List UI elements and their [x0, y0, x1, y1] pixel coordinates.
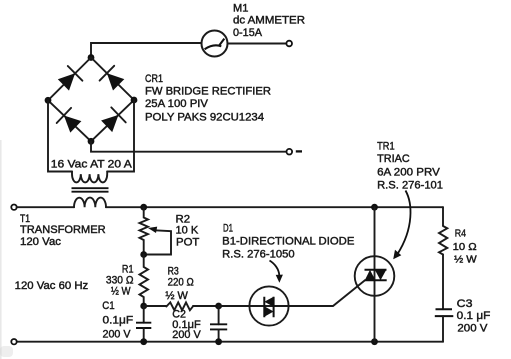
svg-text:R1: R1: [122, 263, 134, 275]
capacitor C2: [218, 306, 220, 324]
wire primary to right branch: [106, 206, 443, 208]
svg-text:200 V: 200 V: [172, 329, 201, 341]
wire triac main terminals: [374, 207, 376, 342]
svg-text:200 V: 200 V: [103, 329, 132, 341]
wire R3 to D1: [193, 305, 289, 307]
resistor R1: [140, 255, 149, 307]
node triac top: [371, 204, 378, 211]
wire bridge bottom vertex to minus terminal: [91, 141, 287, 151]
transformer T1 core: [72, 188, 109, 192]
node C2 bus: [215, 338, 222, 345]
svg-text:120 Vac 60 Hz: 120 Vac 60 Hz: [15, 280, 89, 292]
svg-text:6A 200 PRV: 6A 200 PRV: [377, 166, 440, 178]
svg-text:TRIAC: TRIAC: [377, 153, 410, 165]
node triac bus: [371, 338, 378, 345]
svg-text:R.S. 276-101: R.S. 276-101: [377, 180, 443, 192]
svg-text:0-15A: 0-15A: [233, 27, 263, 39]
node bridge bottom vertex: [88, 138, 95, 145]
svg-text:C1: C1: [102, 300, 114, 312]
node bridge right vertex: [131, 97, 138, 104]
callout arrow to D1: [270, 261, 280, 276]
triac TR1: [355, 256, 395, 296]
ammeter M1: [202, 31, 228, 57]
capacitor C3: [435, 309, 454, 316]
node bridge left vertex: [45, 97, 52, 104]
node C2 top: [215, 303, 222, 310]
resistor R2 potentiometer: [140, 207, 149, 254]
svg-text:½ W: ½ W: [454, 254, 477, 266]
svg-text:M1: M1: [233, 2, 248, 14]
svg-text:R4: R4: [455, 228, 466, 240]
wire right branch top: [442, 207, 444, 225]
minus sign: [296, 150, 302, 152]
terminal plus output: [286, 41, 292, 47]
svg-text:POT: POT: [176, 237, 200, 249]
capacitor C1: [143, 306, 145, 323]
wire bridge left vertex to secondary: [48, 100, 72, 171]
wire D1 to triac gate: [289, 280, 365, 306]
wire AC input to primary: [17, 206, 74, 208]
svg-text:½ W: ½ W: [165, 290, 188, 302]
svg-text:FW BRIDGE RECTIFIER: FW BRIDGE RECTIFIER: [145, 85, 271, 97]
diode CR1 upper-left: [58, 73, 75, 90]
terminal minus output: [287, 149, 293, 155]
svg-text:dc AMMETER: dc AMMETER: [233, 15, 305, 27]
wire bridge CR1 diamond: [48, 58, 134, 142]
scan edge artifact: [0, 140, 2, 359]
wire ammeter to plus terminal: [228, 43, 287, 45]
node R2 bottom: [140, 251, 147, 258]
svg-text:10 K: 10 K: [176, 225, 199, 237]
diode CR1 lower-left: [64, 116, 82, 133]
diode CR1 upper-right: [107, 73, 124, 90]
svg-text:10 Ω: 10 Ω: [453, 241, 477, 253]
svg-text:16 Vac AT 20 A: 16 Vac AT 20 A: [51, 159, 132, 171]
diode CR1 lower-right: [101, 115, 118, 132]
svg-text:0.1μF: 0.1μF: [103, 314, 134, 326]
pot R2 wiper arrow and loop: [144, 230, 171, 254]
svg-text:TRANSFORMER: TRANSFORMER: [20, 224, 106, 236]
wire R1 bottom to R3: [144, 305, 167, 307]
wire R4 to C3: [442, 255, 444, 310]
node C1 bus: [140, 338, 147, 345]
terminal AC line input: [11, 205, 16, 210]
svg-text:200 V: 200 V: [457, 323, 488, 335]
svg-text:R.S. 276-1050: R.S. 276-1050: [222, 248, 295, 260]
callout arrow to TR1: [398, 191, 411, 255]
svg-text:25A 100 PIV: 25A 100 PIV: [145, 98, 209, 110]
transformer T1 primary winding: [74, 198, 106, 208]
wire bridge top vertex to ammeter: [91, 43, 202, 58]
svg-text:C3: C3: [457, 298, 473, 310]
transformer T1 secondary winding: [72, 172, 107, 183]
wire bridge right vertex to secondary: [107, 100, 134, 172]
svg-text:120 Vac: 120 Vac: [20, 236, 62, 248]
node R2 top: [140, 204, 147, 211]
resistor R4: [439, 226, 447, 255]
svg-text:B1-DIRECTIONAL DIODE: B1-DIRECTIONAL DIODE: [222, 236, 354, 248]
diac D1: [219, 305, 289, 307]
resistor R3: [166, 302, 193, 310]
node R1 bottom: [140, 303, 147, 310]
wire bottom bus: [17, 341, 443, 343]
node bridge top vertex: [88, 54, 95, 61]
svg-text:220 Ω: 220 Ω: [168, 276, 194, 288]
svg-text:CR1: CR1: [145, 73, 163, 85]
svg-text:½ W: ½ W: [111, 285, 131, 297]
svg-text:0.1 μF: 0.1 μF: [457, 310, 491, 322]
svg-text:TR1: TR1: [377, 140, 395, 152]
terminal AC neutral input: [11, 339, 16, 344]
svg-text:POLY PAKS 92CU1234: POLY PAKS 92CU1234: [145, 112, 264, 124]
svg-text:D1: D1: [223, 222, 233, 234]
